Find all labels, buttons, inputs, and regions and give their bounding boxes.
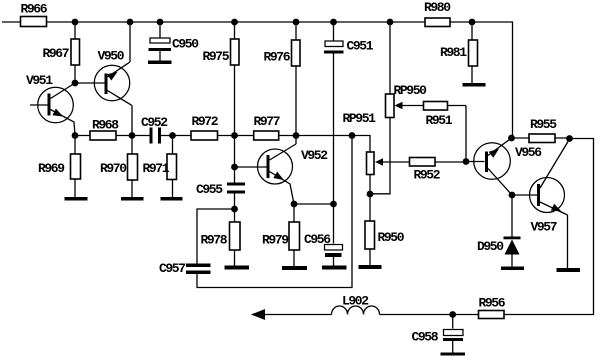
- svg-text:C952: C952: [141, 115, 168, 130]
- svg-text:R979: R979: [262, 233, 289, 248]
- svg-text:C955: C955: [196, 182, 223, 197]
- svg-text:R952: R952: [414, 168, 441, 183]
- svg-text:R968: R968: [92, 118, 119, 133]
- svg-text:C957: C957: [159, 261, 185, 276]
- svg-text:R975: R975: [203, 49, 230, 64]
- svg-text:V952: V952: [301, 148, 328, 163]
- svg-text:R956: R956: [479, 296, 506, 311]
- svg-text:R951: R951: [426, 113, 453, 128]
- svg-text:R971: R971: [143, 161, 170, 176]
- svg-text:D950: D950: [477, 239, 504, 254]
- svg-text:C951: C951: [347, 39, 374, 54]
- svg-text:R970: R970: [100, 161, 127, 176]
- svg-text:V950: V950: [98, 49, 125, 64]
- svg-text:R978: R978: [201, 233, 228, 248]
- svg-text:V951: V951: [26, 73, 53, 88]
- svg-text:RP950: RP950: [394, 83, 428, 98]
- svg-text:C958: C958: [412, 329, 439, 344]
- svg-text:R955: R955: [530, 117, 557, 132]
- svg-text:L902: L902: [342, 294, 369, 309]
- svg-text:R980: R980: [424, 0, 451, 15]
- svg-text:R967: R967: [43, 46, 69, 61]
- svg-text:C950: C950: [172, 37, 199, 52]
- svg-text:R969: R969: [38, 161, 65, 176]
- svg-text:RP951: RP951: [343, 111, 377, 126]
- svg-text:R977: R977: [254, 114, 280, 129]
- svg-text:R972: R972: [192, 114, 219, 129]
- svg-text:R976: R976: [264, 49, 291, 64]
- svg-text:R950: R950: [378, 230, 405, 245]
- svg-text:R981: R981: [440, 45, 467, 60]
- svg-text:V957: V957: [531, 220, 557, 235]
- svg-text:C956: C956: [304, 232, 331, 247]
- svg-text:R966: R966: [21, 2, 48, 17]
- svg-text:V956: V956: [515, 145, 542, 160]
